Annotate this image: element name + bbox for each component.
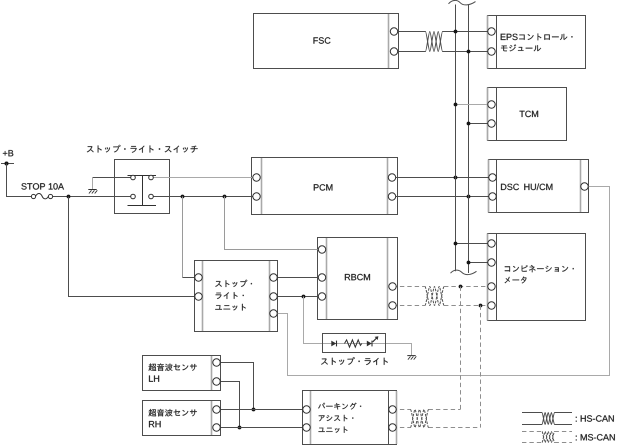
wire MS-CAN bus line 1 (460, 287, 462, 410)
pin of ECU box combination meter (488, 283, 495, 290)
label RBCM (345, 274, 370, 280)
pin of ECU box stop light unit (270, 293, 277, 300)
label parking assist unit line3 (319, 427, 348, 433)
twisted pair FSC-EPS HS-CAN (426, 32, 443, 52)
pin of ECU box DSC HU/CM (581, 183, 588, 190)
pin of ECU box ultrasonic sensor RH (213, 424, 220, 431)
label combination meter line1 (505, 265, 574, 272)
wire sensor RH pin1 to parking unit (217, 409, 307, 411)
wire bus2 to TCM pin2 (469, 123, 492, 125)
junction dot LH pin1 (252, 408, 256, 412)
wire fuse to stop light switch (51, 196, 134, 198)
pin of ECU box parking assist unit (389, 406, 396, 413)
junction dot PCM lower on bus2 (467, 195, 471, 199)
wire RBCM to meter pin4 MS-CAN a (393, 305, 426, 307)
ECU box TCM (488, 88, 567, 141)
pin of ECU box ultrasonic sensor RH (213, 406, 220, 413)
node +B battery terminal (1, 162, 14, 166)
wire FSC pin1 to braid (394, 31, 426, 33)
junction dot MS bus2 start (479, 304, 483, 308)
junction dot EPS lower on bus2 (467, 50, 471, 54)
ECU box ultrasonic sensor LH (143, 356, 221, 391)
pin of ECU box parking assist unit (303, 424, 310, 431)
label FSC (314, 37, 331, 43)
pin of ECU box combination meter (488, 259, 495, 266)
label ultrasonic sensor LH line1 (149, 364, 197, 371)
pin of ECU box stop light unit (195, 274, 202, 281)
junction dot LH pin2 (238, 426, 242, 430)
junction dot PCM upper on bus1 (454, 176, 458, 180)
junction dot TCM lower (467, 122, 471, 126)
wire RBCM to meter pin3 MS-CAN a (393, 286, 426, 288)
pin of ECU box PCM (253, 193, 260, 200)
ECU box stop light unit (195, 261, 278, 332)
junction dot EPS upper on bus1 (454, 30, 458, 34)
wire branch x182 to unit pin1 (183, 277, 199, 279)
break symbol bottom of HS-CAN bus (451, 270, 477, 274)
label parking assist unit line2 (319, 415, 354, 421)
pin of ECU box parking assist unit (303, 406, 310, 413)
twisted pair parking assist MS-CAN (411, 410, 429, 428)
wire unit pin3 to DSC right pin light (274, 187, 610, 376)
wire sensor LH pin1 down (217, 363, 254, 410)
wire +B to fuse (7, 164, 34, 197)
label ultrasonic sensor RH line1 (149, 409, 197, 416)
label stop light switch (87, 145, 198, 153)
contact of switch S1 (131, 194, 136, 199)
wire braid to MS bus1 (429, 409, 461, 411)
label ultrasonic sensor RH line2 (149, 421, 161, 427)
wire braid to EPS pin1 (443, 31, 492, 33)
wire PCM to DSC upper (392, 177, 493, 179)
wire switch contact to ground corner (93, 177, 134, 179)
wire bus2 to meter pin2 (469, 262, 492, 264)
junction dot feed x182 (181, 195, 185, 199)
ECU box RBCM (318, 238, 398, 320)
legend MS-CAN sample (522, 432, 572, 443)
wire switch to PCM upper light (151, 177, 257, 179)
pin of ECU box RBCM (318, 274, 325, 281)
pin of ECU box ultrasonic sensor LH (213, 359, 220, 366)
label stop light unit line2 (216, 292, 244, 299)
wire parking pin2 to braid MS-CAN (393, 427, 411, 429)
resistor R1 in stop light (345, 340, 362, 347)
wire FSC pin2 to braid (394, 51, 426, 53)
ECU box PCM (252, 158, 398, 215)
pin of ECU box RBCM (389, 302, 396, 309)
pin of ECU box RBCM (389, 283, 396, 290)
junction dot feed x224 (223, 195, 227, 199)
legend HS-CAN sample (522, 413, 572, 425)
diode D1 in stop light (331, 341, 336, 347)
wire unit to RBCM pin3 (274, 296, 323, 298)
wire HS-CAN bus line 1 (455, 5, 457, 272)
wire branch x224 to RBCM pin1 gray (225, 197, 323, 250)
label parking assist unit line1 (318, 403, 361, 410)
wire switch to PCM main feed (151, 196, 257, 198)
wire branch x182 down gray (182, 197, 184, 278)
ground G2 stop light (407, 356, 416, 360)
pin of ECU box EPS control module (488, 48, 495, 55)
wire PCM to DSC lower (392, 196, 493, 198)
ECU box FSC (254, 14, 399, 69)
junction dot meter pin2 (467, 261, 471, 265)
label EPS control module line1 (501, 34, 573, 41)
contact of switch S1 (149, 194, 154, 199)
wire bus1 to meter pin1 (456, 243, 492, 245)
label DSC HU/CM (501, 184, 552, 191)
pin of ECU box PCM (253, 174, 260, 181)
pin of ECU box DSC HU/CM (489, 174, 496, 181)
label TCM (520, 111, 539, 117)
pin of ECU box FSC (390, 28, 397, 35)
wire sensor RH pin2 to parking unit (217, 427, 307, 429)
pin of ECU box DSC HU/CM (489, 193, 496, 200)
contact of switch S1 (131, 175, 136, 180)
wire branch x68 to unit pin2 (69, 197, 199, 297)
lamp stop light box (323, 334, 386, 353)
ECU box EPS control module (488, 16, 586, 69)
ground G1 stop light switch (88, 190, 97, 194)
label +B (3, 150, 13, 156)
label stop light (321, 357, 388, 365)
break symbol top of HS-CAN bus (449, 0, 476, 4)
wire parking pin1 to braid MS-CAN (393, 409, 411, 411)
label ultrasonic sensor LH line2 (149, 376, 159, 382)
pin of ECU box EPS control module (488, 28, 495, 35)
junction dot feed x68 (67, 195, 71, 199)
pin of ECU box RBCM (318, 246, 325, 253)
twisted pair RBCM-meter MS-CAN (425, 287, 444, 306)
pin of ECU box combination meter (488, 302, 495, 309)
pin of ECU box parking assist unit (389, 424, 396, 431)
label stop light unit line1 (215, 280, 252, 287)
pin of ECU box RBCM (318, 293, 325, 300)
junction dot meter pin1 (454, 242, 458, 246)
ECU box parking assist unit (303, 391, 397, 445)
wire dot to stop light lamp light (304, 297, 332, 344)
wire RBCM to meter pin3 MS-CAN b (444, 286, 492, 288)
wire RBCM to meter pin4 MS-CAN b (444, 305, 492, 307)
wire unit to RBCM pin2 (274, 277, 323, 279)
pin of ECU box TCM (488, 101, 495, 108)
ECU box combination meter (488, 234, 586, 321)
wire braid to MS bus2 (429, 427, 481, 429)
wire bus1 to TCM pin1 light (456, 104, 492, 106)
wire stop light to ground light (386, 344, 412, 356)
label stop light unit line3 (215, 304, 246, 311)
label legend HS-CAN (576, 415, 614, 421)
label legend MS-CAN (576, 434, 615, 440)
ECU box DSC HU/CM (489, 160, 589, 213)
pin of ECU box FSC (390, 48, 397, 55)
junction dot MS bus1 start (459, 285, 463, 289)
pin of ECU box TCM (488, 120, 495, 127)
contact of switch S1 (149, 175, 154, 180)
label fuse STOP 10A (21, 183, 64, 189)
label combination meter line2 (505, 277, 527, 284)
wire sensor LH pin2 down (217, 382, 240, 428)
junction dot TCM upper (454, 103, 458, 107)
ECU box ultrasonic sensor RH (143, 401, 221, 436)
pin of ECU box stop light unit (270, 274, 277, 281)
wire HS-CAN bus line 2 (468, 5, 470, 274)
pin of ECU box stop light unit (195, 293, 202, 300)
label PCM (314, 184, 333, 190)
diode D2 LED in stop light (367, 336, 379, 346)
pin of ECU box ultrasonic sensor LH (213, 378, 220, 385)
wire through stop light lamp light (331, 343, 386, 345)
wire braid to EPS pin2 (443, 51, 492, 53)
pin of ECU box combination meter (488, 240, 495, 247)
label EPS control module line2 (501, 44, 541, 51)
pin of ECU box PCM (388, 174, 395, 181)
switch S1 stop light switch (115, 160, 170, 214)
junction dot stop light feed (302, 295, 306, 299)
fuse STOP 10A (31, 193, 52, 198)
pin of ECU box PCM (388, 193, 395, 200)
wire ground drop light (92, 178, 94, 190)
wire MS-CAN bus line 2 (480, 306, 482, 428)
pin of ECU box stop light unit (270, 310, 277, 317)
